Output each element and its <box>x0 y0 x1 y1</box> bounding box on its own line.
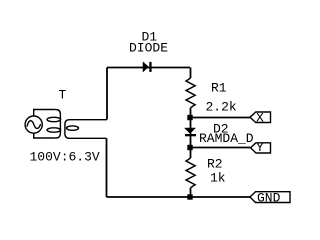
resistor R2 <box>186 158 195 188</box>
wire right vertical column lower segment <box>190 188 192 197</box>
wire AC source bottom lead <box>34 133 56 138</box>
resistor R1 <box>186 78 195 108</box>
svg-text:RAMDA_D: RAMDA_D <box>199 131 254 146</box>
AC source circle of T <box>25 116 42 133</box>
svg-text:R2: R2 <box>207 156 223 171</box>
wire AC source top lead <box>34 110 56 117</box>
junction node at X tap <box>187 115 192 120</box>
wire right vertical column upper segment <box>190 68 192 79</box>
svg-text:GND: GND <box>257 190 281 205</box>
svg-text:Y: Y <box>256 140 264 155</box>
svg-text:R1: R1 <box>211 81 227 96</box>
svg-text:DIODE: DIODE <box>129 41 168 56</box>
svg-text:T: T <box>59 88 67 103</box>
junction node at Y tap <box>187 145 192 150</box>
svg-text:X: X <box>256 111 264 126</box>
wire left vertical lower (secondary bottom down to ground rail) <box>106 138 108 197</box>
svg-text:2.2k: 2.2k <box>206 99 237 114</box>
wire top horizontal from node A to node B <box>107 67 190 69</box>
port tag X <box>250 111 271 126</box>
wire node Y stub <box>190 147 250 149</box>
junction node at ground rail <box>187 194 192 199</box>
secondary loop crossing <box>67 126 79 130</box>
transformer primary winding (3 turns) <box>56 110 61 139</box>
AC sine wave inside source <box>27 121 41 129</box>
wire right vertical column middle segment <box>190 108 192 158</box>
diode D2 <box>185 128 197 136</box>
transformer secondary winding (2 turns) <box>65 120 107 139</box>
wire node X stub <box>190 117 250 119</box>
primary loop crossing 2 <box>47 128 61 132</box>
svg-text:100V:6.3V: 100V:6.3V <box>30 150 100 165</box>
primary loop crossing 1 <box>47 117 61 121</box>
port tag Y <box>251 140 271 155</box>
wire left vertical upper (secondary top to top wire) <box>106 68 108 120</box>
wire bottom ground rail <box>107 196 251 198</box>
port tag GND <box>250 190 290 205</box>
svg-text:1k: 1k <box>210 170 226 185</box>
diode D1 <box>143 62 152 72</box>
transformer T <box>25 110 107 139</box>
